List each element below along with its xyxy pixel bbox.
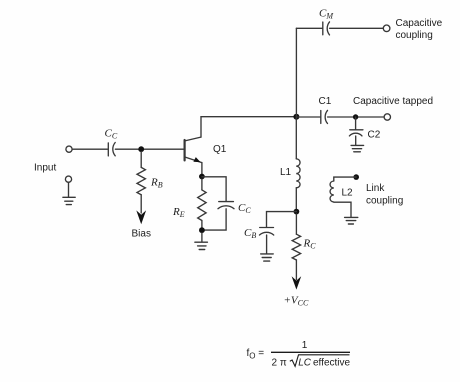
capacitor CC (emitter bypass) — [218, 202, 234, 209]
wire emitter to node — [201, 163, 203, 177]
svg-text:CB: CB — [244, 227, 256, 240]
svg-text:Q1: Q1 — [213, 144, 227, 155]
svg-text:CC: CC — [238, 202, 251, 215]
ground (CB) — [261, 254, 274, 261]
arrow to +VCC — [292, 276, 302, 289]
svg-text:effective: effective — [313, 358, 350, 369]
wire CM to terminal — [330, 27, 384, 29]
ground (L2) — [345, 217, 358, 224]
wire CB to ground — [266, 235, 268, 254]
svg-text:CC: CC — [105, 128, 118, 141]
capacitor CB — [260, 228, 274, 236]
svg-text:L1: L1 — [280, 167, 292, 178]
node D (emitter) — [199, 174, 205, 180]
svg-text:2 π: 2 π — [272, 358, 287, 369]
L2 node dot — [353, 174, 359, 180]
collector riser — [200, 117, 202, 137]
formula f0 = 1 / (2 pi sqrt(LC effective)) — [247, 340, 351, 369]
wire node E down — [201, 233, 203, 242]
svg-text:RE: RE — [172, 206, 185, 219]
resistor RE — [198, 179, 206, 228]
svg-text:1: 1 — [302, 340, 308, 351]
ground (input) — [63, 197, 75, 204]
wire node B down to L1 — [295, 117, 297, 159]
svg-text:coupling: coupling — [396, 30, 433, 41]
node C (bottom of tank) — [294, 209, 300, 215]
svg-text:Capacitive tapped: Capacitive tapped — [353, 96, 433, 107]
capacitor C1 — [321, 110, 328, 123]
capacitor CM — [323, 22, 330, 35]
wire cap to emitter bottom — [202, 209, 226, 230]
wire Cc to base — [115, 148, 184, 150]
wire L2 top — [334, 177, 356, 181]
svg-text:C1: C1 — [319, 96, 332, 107]
node C2 tap — [353, 114, 358, 119]
wire L2 bottom to ground — [334, 202, 351, 217]
wire node C to CB — [267, 212, 297, 228]
svg-text:CM: CM — [319, 8, 334, 21]
node A (base node) — [138, 146, 144, 152]
svg-text:coupling: coupling — [366, 196, 403, 207]
svg-text:RC: RC — [303, 238, 317, 251]
arrow to Bias — [136, 210, 146, 224]
svg-text:LC: LC — [298, 358, 312, 369]
wire collector rail — [201, 116, 296, 118]
resistor RB — [137, 152, 145, 214]
input ground terminal — [65, 176, 71, 182]
input terminal — [66, 146, 72, 152]
wire input to Cc — [72, 148, 107, 150]
svg-text:Link: Link — [366, 183, 385, 194]
svg-text:Bias: Bias — [132, 229, 151, 240]
wire terminal to ground — [68, 182, 70, 197]
wire C2 to ground — [355, 136, 357, 145]
wire L1 to node C — [295, 188, 297, 212]
ground (RE) — [195, 242, 208, 249]
wire node B to C1 — [296, 116, 320, 118]
ground (C2) — [351, 145, 364, 151]
svg-text:fO =: fO = — [247, 348, 265, 361]
wire node D to bypass cap — [202, 177, 226, 201]
svg-text:Capacitive: Capacitive — [396, 18, 443, 29]
capacitor CC (input coupling) — [108, 143, 115, 156]
wire down to C2 — [355, 117, 357, 129]
inductor L1 — [296, 159, 300, 188]
resistor RC — [292, 214, 300, 280]
svg-text:L2: L2 — [342, 188, 354, 199]
capacitive coupling terminal — [383, 25, 390, 32]
wire to CM — [296, 27, 322, 29]
inductor L2 — [330, 181, 334, 202]
wire node B up — [295, 28, 297, 116]
node E (emitter ground node) — [199, 227, 205, 233]
svg-text:+VCC: +VCC — [284, 295, 309, 308]
capacitor C2 — [349, 130, 363, 136]
svg-text:C2: C2 — [368, 130, 381, 141]
node B (tank top) — [293, 114, 299, 120]
transistor Q1 — [185, 137, 202, 163]
capacitive tapped terminal — [384, 114, 390, 120]
wire C1 to tapped terminal — [328, 116, 385, 118]
svg-text:Input: Input — [34, 163, 56, 174]
svg-text:RB: RB — [150, 177, 163, 190]
